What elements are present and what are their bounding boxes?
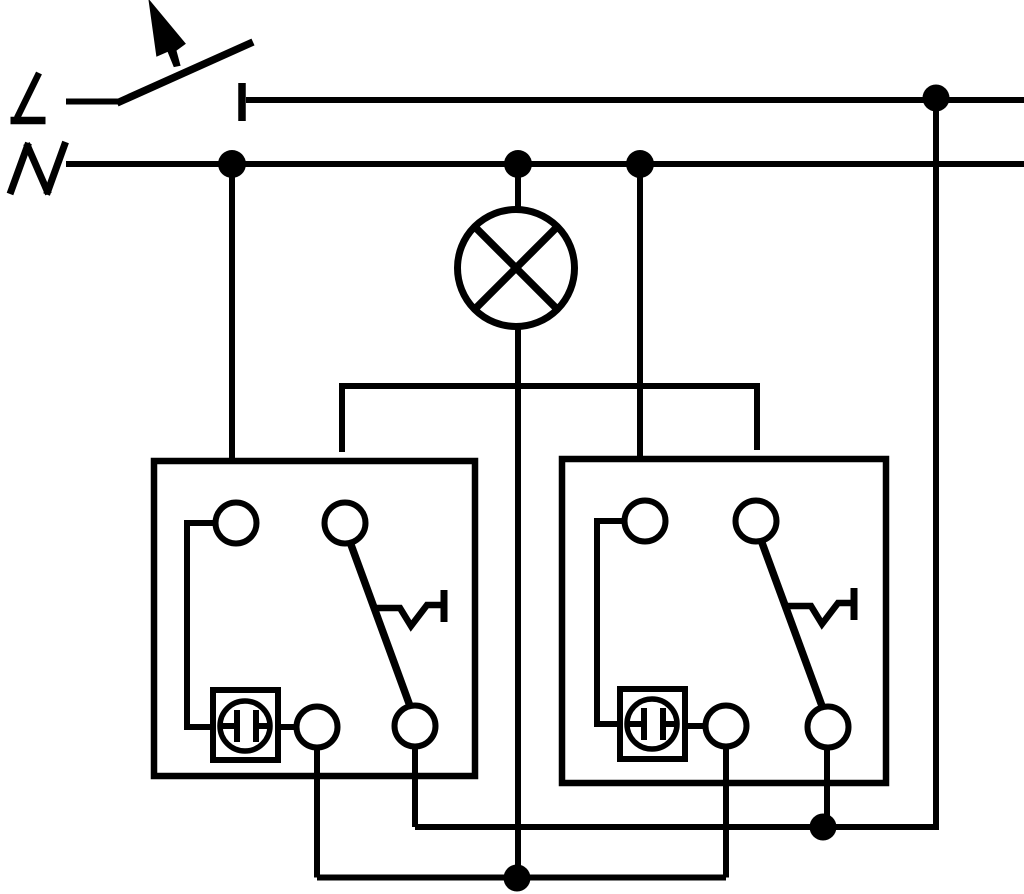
wire middle rail	[342, 386, 757, 452]
node N junction dot 2	[504, 150, 532, 178]
terminal S2-1	[625, 501, 666, 542]
terminal S2-4	[808, 707, 849, 748]
node junction dot S2-4 bus	[810, 814, 837, 841]
wire lamp down	[515, 326, 521, 878]
wire S1-4 down	[412, 746, 418, 827]
mouse cursor	[148, 0, 186, 67]
glow lamp H2 circle	[627, 699, 677, 749]
terminal S1-1	[216, 503, 257, 544]
wire N to right box	[637, 164, 643, 459]
switch S2 actuator	[787, 603, 852, 624]
lamp E1	[458, 210, 575, 327]
wire right rail down	[933, 100, 939, 827]
wire H2 to S2-3	[685, 723, 706, 729]
wire H1 to S1-3	[278, 724, 297, 730]
wire bottom bus upper	[415, 824, 939, 830]
glow lamp H1 electrodes	[221, 710, 269, 742]
wire L rail	[246, 97, 1024, 103]
terminal S1-4	[395, 706, 436, 747]
wire S1-3 down	[314, 747, 320, 878]
switch S1 actuator	[376, 605, 442, 626]
switch S1 blade	[350, 542, 410, 706]
terminal S2-2	[736, 501, 777, 542]
glow lamp H1 square	[213, 690, 278, 760]
glow lamp H2 electrodes	[628, 708, 676, 740]
glow lamp H2 square	[620, 689, 685, 759]
switch box S1	[154, 461, 475, 776]
switch S0 blade (open)	[117, 42, 253, 103]
wire S1 internal loop	[187, 523, 215, 727]
wire L feed	[66, 99, 119, 105]
node N junction dot 3	[626, 150, 654, 178]
switch box S2	[562, 459, 886, 783]
terminal S1-2	[325, 503, 366, 544]
wire S2 internal loop	[597, 521, 624, 724]
wire bottom bus lower	[317, 875, 726, 881]
terminal S1-3	[297, 707, 338, 748]
glow lamp H1 circle	[220, 701, 270, 751]
node L-right junction dot	[923, 85, 950, 112]
switch S0 fixed contact tick	[238, 83, 246, 121]
wire N rail	[66, 161, 1024, 167]
wire S2-4 down	[824, 747, 830, 827]
node junction dot lamp bus	[504, 865, 531, 892]
node N junction dot 1	[218, 150, 246, 178]
switch S2 blade	[761, 540, 822, 706]
label N	[10, 142, 66, 195]
wire S2-3 down	[723, 746, 729, 878]
wire N to lamp	[515, 164, 521, 212]
wire N to left box	[229, 164, 235, 461]
label L	[11, 73, 46, 121]
terminal S2-3	[706, 706, 747, 747]
